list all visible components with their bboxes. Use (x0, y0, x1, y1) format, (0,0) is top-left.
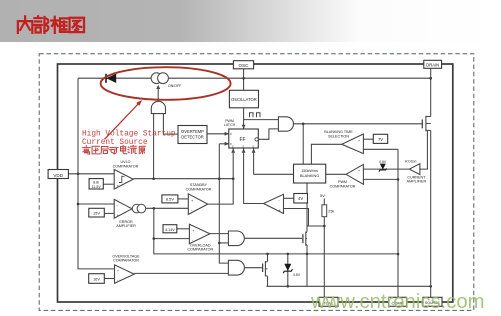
svg-text:16V: 16V (93, 277, 100, 282)
svg-text:VDD: VDD (53, 173, 63, 178)
svg-text:S: S (232, 144, 234, 148)
svg-text:COMPARATOR: COMPARATOR (113, 259, 139, 263)
svg-text:11.5V: 11.5V (92, 185, 102, 189)
svg-text:FF: FF (239, 137, 245, 143)
svg-text:BLANKING: BLANKING (300, 174, 319, 178)
svg-text:S: S (242, 144, 244, 148)
svg-text:COMPARATOR: COMPARATOR (186, 187, 212, 191)
svg-text:150kW/ns: 150kW/ns (301, 169, 318, 173)
svg-text:DETECTOR: DETECTOR (181, 134, 203, 139)
svg-text:LATCH: LATCH (224, 123, 236, 127)
svg-text:OSC: OSC (239, 63, 250, 68)
svg-text:AMPLIFIER: AMPLIFIER (407, 180, 427, 184)
svg-text:OSCILLATOR: OSCILLATOR (231, 97, 257, 102)
svg-text:Current Source: Current Source (82, 139, 148, 147)
svg-text:COMPARATOR: COMPARATOR (113, 165, 139, 169)
svg-text:COMPARATOR: COMPARATOR (187, 248, 213, 252)
svg-text:www.cntronics.com: www.cntronics.com (310, 291, 485, 313)
svg-text:8.5V: 8.5V (166, 197, 175, 202)
svg-text:ON/OFF: ON/OFF (168, 84, 181, 88)
svg-text:OVERTEMP: OVERTEMP (181, 129, 204, 134)
svg-text:4.5V: 4.5V (293, 273, 301, 277)
svg-text:COMPARATOR: COMPARATOR (330, 184, 356, 188)
svg-text:R: R (230, 132, 232, 136)
svg-text:AMPLIFIER: AMPLIFIER (116, 224, 136, 228)
svg-text:15V: 15V (93, 211, 100, 216)
svg-text:4V: 4V (298, 196, 303, 201)
svg-text:DRAIN: DRAIN (426, 62, 439, 67)
svg-text:High Voltage Startup: High Voltage Startup (82, 131, 176, 139)
svg-text:0.5V: 0.5V (379, 160, 387, 164)
svg-text:S: S (252, 144, 254, 148)
svg-text:8.8/: 8.8/ (93, 180, 99, 184)
svg-text:5V: 5V (320, 193, 325, 198)
svg-text:4.14V: 4.14V (165, 228, 175, 232)
svg-text:STANDBY: STANDBY (190, 183, 208, 187)
svg-text:7V: 7V (378, 137, 383, 142)
svg-text:SELECTION: SELECTION (328, 134, 349, 138)
svg-text:R DSon: R DSon (405, 160, 416, 164)
svg-text:25k: 25k (328, 209, 334, 213)
